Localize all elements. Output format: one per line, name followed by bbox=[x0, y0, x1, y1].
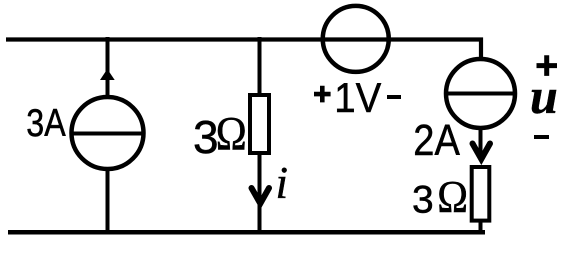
svg-text:3: 3 bbox=[193, 111, 219, 163]
svg-text:i: i bbox=[276, 158, 289, 208]
svg-text:u: u bbox=[530, 68, 558, 124]
svg-text:3A: 3A bbox=[26, 101, 66, 145]
svg-text:1V: 1V bbox=[334, 74, 381, 121]
svg-text:2A: 2A bbox=[413, 115, 460, 164]
svg-text:Ω: Ω bbox=[216, 107, 247, 160]
svg-text:Ω: Ω bbox=[437, 172, 468, 222]
svg-text:3: 3 bbox=[412, 179, 434, 222]
